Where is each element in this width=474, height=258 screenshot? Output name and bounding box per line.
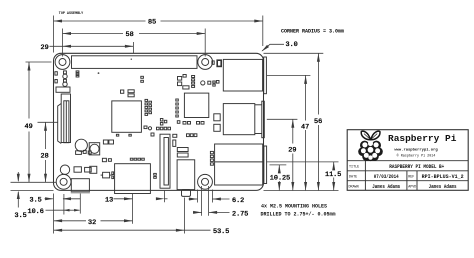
- mounting hole TL: [55, 55, 70, 70]
- dim 49 line: [28, 62, 30, 119]
- row 2.75: [193, 211, 202, 213]
- title block outer box: [347, 130, 468, 191]
- via dot below header: [98, 72, 100, 74]
- svg-text:www.raspberrypi.org: www.raspberrypi.org: [394, 147, 438, 152]
- dim29 top arrows: [63, 45, 72, 48]
- Ethernet mouth line: [215, 161, 263, 163]
- row 13 arrows: [124, 197, 133, 200]
- logo leaf right: [371, 131, 380, 140]
- row 6.2 arrows: [189, 198, 198, 201]
- pads right of HDMI: [154, 173, 157, 175]
- pads left of CSI: [160, 119, 163, 122]
- svg-text:3.5: 3.5: [30, 197, 42, 205]
- small parts row above musb: [76, 151, 82, 155]
- dim 85 ext left: [53, 16, 55, 53]
- svg-text:3.0: 3.0: [286, 41, 298, 49]
- svg-text:© Raspberry Pi 2014: © Raspberry Pi 2014: [397, 154, 436, 159]
- dim85 arrows: [54, 20, 63, 23]
- microSD slot body: [61, 94, 70, 143]
- run pin circle A: [63, 74, 67, 78]
- bottom ext hdmi ctr: [132, 194, 134, 224]
- svg-text:56: 56: [314, 118, 322, 126]
- title block col lines: [364, 161, 366, 191]
- svg-text:DRAWN: DRAWN: [349, 185, 359, 189]
- title block row lines: [347, 160, 468, 162]
- pad column left of Ethernet: [210, 151, 213, 153]
- dim49 arrows: [28, 62, 31, 71]
- bottom edge ext left: [11, 190, 54, 192]
- pads right of D1: [112, 172, 114, 175]
- svg-text:32: 32: [88, 219, 96, 227]
- HDMI connector body: [115, 164, 151, 194]
- audio jack body: [177, 160, 195, 190]
- USB1 flange: [264, 57, 267, 94]
- micro USB power body: [71, 179, 89, 192]
- dim58 arrows: [63, 32, 72, 35]
- dim 28 top ext (microSD center): [38, 121, 58, 123]
- logo berry: [358, 141, 383, 162]
- arrowheads: [17, 20, 335, 232]
- bottom ext pad edges: [197, 190, 199, 203]
- cluster right of SoC bottom: [144, 126, 147, 129]
- run header pad B: [64, 79, 67, 82]
- LAN cluster circle: [201, 81, 205, 85]
- row 3.5 arrows: [45, 197, 54, 200]
- svg-text:APVD: APVD: [408, 185, 416, 189]
- bottom ext csi ctr: [163, 191, 165, 203]
- USB2 tongue top: [255, 104, 262, 106]
- svg-text:6.2: 6.2: [232, 197, 244, 205]
- svg-text:James Adams: James Adams: [429, 183, 457, 190]
- dim 29 top line: [50, 45, 134, 47]
- svg-text:29: 29: [288, 147, 296, 155]
- row 3.5 arrows/lines: [45, 198, 53, 200]
- USB connector bottom (USB2) body: [223, 104, 255, 135]
- mounting hole BL: [56, 174, 71, 189]
- svg-text:Raspberry Pi: Raspberry Pi: [388, 133, 457, 144]
- svg-text:29: 29: [41, 44, 49, 52]
- microSD card: [64, 101, 69, 143]
- SoC U1: [112, 101, 142, 132]
- CSI camera connector inner slot: [164, 138, 168, 186]
- svg-text:RPI-BPLUS-V1_2: RPI-BPLUS-V1_2: [422, 173, 465, 180]
- capacitor C1 circle: [75, 139, 87, 151]
- pad column left of LAN: [176, 99, 179, 101]
- left edge pad A: [55, 72, 57, 75]
- dim28 arrows: [44, 122, 47, 131]
- row 2.75 arrows: [193, 211, 202, 214]
- GPIO header J8: [72, 56, 198, 69]
- capacitor C3 circle lower: [60, 165, 69, 174]
- run pin circle B: [63, 82, 67, 86]
- right ext USB1 ctr: [267, 74, 310, 76]
- pad column right of SoC: [145, 99, 148, 101]
- row 10.6 arrows: [64, 209, 70, 212]
- USB2 tongue bottom: [255, 133, 262, 135]
- svg-text:TOP ASSEMBLY: TOP ASSEMBLY: [59, 12, 84, 16]
- svg-text:85: 85: [148, 19, 156, 27]
- dim 10.25 line: [278, 165, 280, 172]
- dim 29 right line: [292, 119, 294, 143]
- dim 47 line: [305, 75, 307, 120]
- corner radius leader: [262, 44, 284, 51]
- svg-text:DRILLED TO 2.75+/- 0.05mm: DRILLED TO 2.75+/- 0.05mm: [261, 211, 336, 217]
- hole center ext left: [11, 181, 57, 183]
- row 53.5 arrows: [54, 229, 63, 232]
- microSD left flap: [58, 104, 62, 144]
- row 6.2: [189, 198, 198, 200]
- dim 28 line: [45, 122, 47, 149]
- raspberry logo: [358, 131, 383, 161]
- bottom ext musb ctr: [79, 194, 81, 214]
- small rect near TR hole: [217, 60, 221, 66]
- svg-text:28: 28: [41, 153, 49, 161]
- dim 3.5 left vertical arrows: [17, 172, 19, 181]
- corner leader arrow: [261, 45, 269, 53]
- svg-text:49: 49: [25, 123, 33, 131]
- dim 85 ext right: [262, 16, 264, 47]
- row 32: [54, 220, 86, 222]
- pad pair right of caps: [103, 140, 108, 144]
- svg-text:DATE: DATE: [349, 175, 357, 179]
- svg-text:REF: REF: [408, 175, 414, 179]
- board outline: [54, 53, 264, 190]
- micro USB bottom tab: [71, 192, 90, 194]
- dim 29 ext: [132, 42, 134, 53]
- dim 58 ext lines: [62, 29, 64, 57]
- row 32 arrows: [54, 219, 63, 222]
- svg-text:CORNER RADIUS = 3.0mm: CORNER RADIUS = 3.0mm: [281, 28, 344, 34]
- dim29R arrows: [291, 119, 294, 128]
- Ethernet flange: [264, 146, 267, 184]
- bottom ext drill edges: [201, 186, 203, 216]
- dim3.5 left arrows: [17, 174, 20, 183]
- capacitor C2 cylinder: [89, 143, 100, 155]
- bottom ext hole ctr x=63.9: [63, 194, 65, 215]
- rects left of USB2: [214, 114, 220, 121]
- svg-text:James Adams: James Adams: [372, 183, 400, 190]
- USB connector top (USB1) body: [223, 59, 262, 91]
- cluster left of audio top: [173, 134, 177, 137]
- LAN chip U2: [184, 93, 208, 117]
- dim 58 line: [63, 33, 124, 35]
- dim10.25 arrows: [278, 165, 281, 174]
- right ext bottom edge: [264, 190, 339, 192]
- right ext USB2 ctr: [267, 118, 298, 120]
- svg-text:10.6: 10.6: [28, 208, 44, 216]
- right ext 10.25: [270, 164, 287, 166]
- svg-text:2.75: 2.75: [232, 210, 248, 218]
- pad row above HDMI: [130, 158, 133, 160]
- left edge pad B: [55, 80, 57, 83]
- svg-text:TITLE: TITLE: [349, 165, 359, 169]
- svg-text:53.5: 53.5: [213, 228, 229, 236]
- row 13: [114, 198, 133, 200]
- pads right of LAN top: [213, 81, 215, 83]
- svg-text:10.25: 10.25: [270, 175, 290, 183]
- dim 56 line: [317, 53, 319, 114]
- right ext eth ctr: [266, 161, 338, 163]
- dim11.5 arrows: [332, 162, 335, 171]
- svg-text:4x M2.5 MOUNTING HOLES: 4x M2.5 MOUNTING HOLES: [261, 203, 327, 209]
- row 10.6 lines: [46, 209, 54, 211]
- right ext top edge: [264, 52, 324, 54]
- svg-text:13: 13: [105, 197, 113, 205]
- regulator parts between musb and hdmi: [90, 166, 97, 173]
- DSI flat rect: [56, 87, 70, 92]
- diode D1 symbol: [103, 172, 110, 178]
- GPIO pin1 dot: [131, 59, 132, 60]
- audio jack top part A: [177, 148, 188, 152]
- dim56 arrows: [317, 53, 320, 62]
- LAN cluster pad column: [192, 76, 195, 78]
- pads above D1: [102, 158, 106, 161]
- svg-text:11.5: 11.5: [325, 171, 341, 179]
- dim 49 top ext: [26, 61, 52, 63]
- svg-text:47: 47: [301, 124, 309, 132]
- microSD card inner line: [65, 101, 67, 143]
- pads below LAN: [183, 122, 186, 125]
- svg-text:58: 58: [126, 31, 134, 39]
- pads trio right of run: [76, 71, 79, 73]
- bottom ext audio ctr: [183, 198, 185, 234]
- bottom ext x=53.6: [53, 194, 55, 234]
- logo leaf left: [361, 131, 370, 140]
- dim47 arrows: [304, 75, 307, 84]
- CSI camera connector outer: [160, 134, 170, 188]
- LAN cluster crystal: [178, 77, 182, 81]
- mounting hole BR: [198, 174, 213, 189]
- svg-text:07/03/2014: 07/03/2014: [374, 173, 399, 180]
- dim 85 line: [54, 20, 146, 22]
- svg-text:3.5: 3.5: [15, 212, 27, 220]
- pads above SoC: [121, 90, 124, 93]
- pads below SoC: [116, 134, 118, 136]
- Ethernet jack body: [215, 144, 263, 185]
- row 53.5: [54, 229, 185, 231]
- svg-text:RASPBERRY PI MODEL B+: RASPBERRY PI MODEL B+: [389, 163, 444, 170]
- LAN cluster pad right: [208, 81, 211, 84]
- audio jack barrel: [182, 190, 191, 197]
- dim 11.5 line: [333, 162, 335, 169]
- pads below header mid: [141, 76, 144, 78]
- audio jack top part B: [177, 153, 188, 157]
- mounting hole TR: [198, 55, 213, 70]
- run header pad A: [64, 71, 67, 74]
- USB2 flange: [262, 101, 265, 138]
